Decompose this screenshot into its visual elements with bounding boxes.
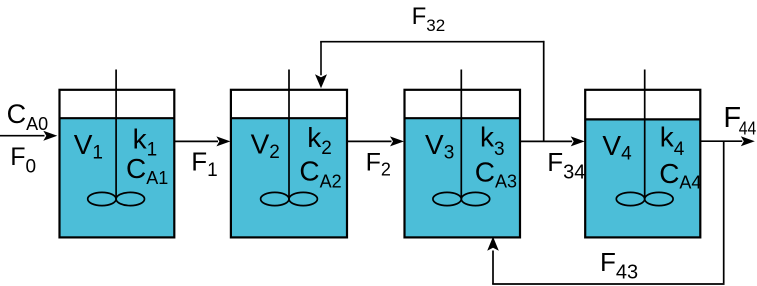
tank T3 liquid: [405, 118, 521, 237]
svg-text:F34: F34: [547, 147, 585, 183]
stirrer shaft T3: [460, 70, 462, 200]
wire F2 tank2 to tank3: [347, 140, 392, 142]
arrowhead feed F0: [43, 131, 57, 141]
arrowhead F43: [487, 237, 499, 251]
wire F43 recycle riser into tank3: [492, 251, 494, 285]
wire F1 tank1 to tank2: [174, 140, 218, 142]
svg-text:F43: F43: [600, 247, 638, 284]
tank T2 liquid surface line: [231, 117, 347, 119]
arrowhead F1: [216, 136, 230, 146]
arrowhead F32: [315, 74, 327, 88]
tank T2 liquid: [231, 118, 347, 237]
tank T4 liquid surface line: [585, 118, 700, 120]
tank T3 liquid surface line: [405, 117, 521, 119]
svg-text:F0: F0: [10, 143, 36, 178]
wire F34 tank3 to tank4: [520, 140, 572, 142]
wire F43 recycle drop from outlet junction: [723, 141, 725, 283]
svg-text:44: 44: [739, 119, 757, 139]
wire feed F0: [0, 135, 45, 137]
stirrer shaft T2: [288, 70, 290, 200]
wire F43 recycle bottom run: [492, 283, 724, 285]
svg-text:F32: F32: [412, 3, 446, 35]
wire F32 recycle drop into tank2: [320, 42, 322, 76]
arrowhead F2: [390, 136, 404, 146]
stirrer shaft T4: [644, 70, 646, 200]
tank T2 vessel outline: [231, 90, 347, 238]
arrowhead F34: [571, 136, 585, 146]
wire F44 outlet: [700, 140, 742, 142]
wire F32 recycle top run: [320, 41, 544, 43]
stirrer shaft T1: [115, 70, 117, 200]
tank T4 liquid: [585, 119, 700, 237]
impeller T3: [433, 192, 461, 205]
tank T1 vessel outline: [60, 90, 175, 238]
tank T3 vessel outline: [405, 90, 521, 238]
svg-text:CA0: CA0: [7, 99, 49, 134]
tank T1 liquid surface line: [60, 117, 175, 119]
tank T4 vessel outline: [585, 90, 700, 238]
impeller T2: [261, 192, 289, 205]
impeller T4: [616, 192, 644, 205]
wire F32 recycle riser from F34 junction: [543, 41, 545, 141]
arrowhead F44: [741, 136, 755, 146]
svg-text:F2: F2: [366, 149, 391, 180]
tank T1 liquid: [60, 118, 175, 237]
svg-text:F1: F1: [191, 147, 217, 182]
impeller T1: [88, 192, 116, 205]
